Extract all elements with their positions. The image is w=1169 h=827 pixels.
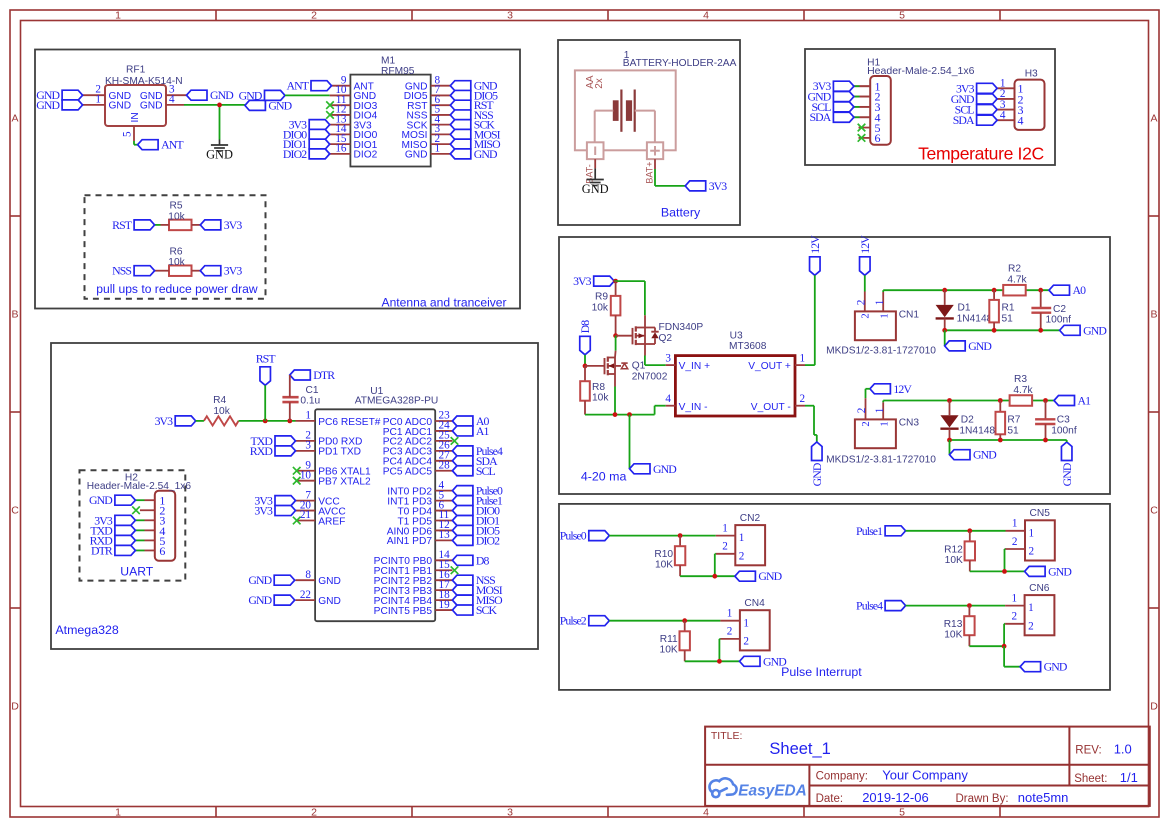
CN6 pin 2 <box>1005 623 1025 625</box>
svg-text:1: 1 <box>1012 518 1018 530</box>
wire CN5 pin2 to ground rail <box>1005 548 1006 550</box>
svg-text:Drawn By:: Drawn By: <box>956 793 1009 805</box>
resistor R4 zigzag <box>204 416 239 425</box>
svg-text:R1: R1 <box>1002 303 1015 314</box>
svg-text:2: 2 <box>311 9 317 21</box>
svg-text:EasyEDA: EasyEDA <box>738 783 806 800</box>
node junction D1 top <box>942 288 947 293</box>
svg-text:PCINT5 PB5: PCINT5 PB5 <box>374 606 433 617</box>
svg-text:6: 6 <box>875 131 881 145</box>
net flag DIO0 <box>452 506 473 516</box>
dashed box pull ups <box>85 195 266 298</box>
U1 pin 16 PCINT2 PB2 <box>435 579 452 581</box>
net flag NSS <box>134 266 155 276</box>
RF1 pin 3 stub <box>166 94 187 96</box>
net flag D8 <box>452 555 473 565</box>
svg-text:BAT+: BAT+ <box>645 162 655 184</box>
capacitor C3 <box>1045 401 1047 420</box>
U1 pin 2 PD0 RXD <box>296 440 316 442</box>
terminal block CN3 body <box>855 419 896 448</box>
header H3 body <box>1015 80 1045 130</box>
svg-text:note5mn: note5mn <box>1018 790 1069 805</box>
node junction C2 bottom <box>1038 328 1043 333</box>
H1 pin 6 <box>859 137 871 139</box>
CN1 pin 2 <box>864 292 866 312</box>
svg-text:2: 2 <box>311 806 317 818</box>
svg-text:GND: GND <box>140 101 163 112</box>
node junction D2 bottom <box>947 438 952 443</box>
wire D1 to GND flag <box>944 330 946 346</box>
wire DTR to C1 <box>289 375 291 397</box>
svg-text:MKDS1/2-3.81-1727010: MKDS1/2-3.81-1727010 <box>826 454 936 465</box>
net flag GND <box>274 575 295 585</box>
frame column ticks top <box>215 10 217 21</box>
svg-text:IN: IN <box>130 112 141 122</box>
svg-text:A: A <box>1150 113 1157 125</box>
node junction Q1 source rail <box>613 412 618 417</box>
wire D2 to GND flag <box>949 440 951 455</box>
node junction C1 <box>287 419 292 424</box>
svg-text:2: 2 <box>722 541 728 553</box>
terminal block CN4 body <box>740 610 770 650</box>
net flag GND <box>945 341 966 351</box>
net flag MISO <box>452 595 473 605</box>
net flag 3V3 <box>594 276 615 286</box>
svg-text:19: 19 <box>439 599 451 611</box>
wire VOUT- down to GND flag <box>805 405 814 407</box>
svg-text:1N4148: 1N4148 <box>959 426 995 437</box>
svg-text:MT3608: MT3608 <box>729 341 767 352</box>
bottom rail wire <box>585 414 655 416</box>
svg-text:12V: 12V <box>893 382 912 396</box>
svg-text:C: C <box>11 505 19 517</box>
svg-text:1N4148: 1N4148 <box>957 314 993 325</box>
ground rail wire <box>680 575 735 577</box>
svg-text:5: 5 <box>899 9 905 21</box>
U3 pin 3 V_IN+ <box>666 364 676 366</box>
svg-text:GND: GND <box>239 88 263 102</box>
net flag GND <box>833 92 854 102</box>
resistor R9 <box>615 281 617 296</box>
svg-text:CN4: CN4 <box>744 598 765 609</box>
svg-text:3: 3 <box>507 806 513 818</box>
no-connect X on U1 pin 25 <box>451 437 459 445</box>
H1 pin 4 <box>854 116 870 118</box>
transistor Q1 2N7002 <box>585 365 605 367</box>
svg-text:1: 1 <box>743 617 749 629</box>
antenna connector RF1 body <box>105 85 166 126</box>
U1 pin 5 INT1 PD3 <box>435 500 452 502</box>
net flag 3V3 <box>977 83 998 93</box>
node junction C3 top <box>1043 398 1048 403</box>
resistor R2 <box>1003 285 1025 296</box>
net flag RST <box>260 367 271 386</box>
svg-text:GND: GND <box>36 98 60 112</box>
svg-text:V_OUT +: V_OUT + <box>748 361 791 372</box>
net flag NSS <box>452 575 473 585</box>
svg-text:Date:: Date: <box>816 793 844 805</box>
svg-text:5: 5 <box>122 131 134 137</box>
top rail CN1 section <box>883 289 1055 291</box>
resistor R13 <box>968 606 970 617</box>
node junction Pulse4 R top <box>967 603 972 608</box>
net flag 3V3 <box>200 220 221 230</box>
net flag 12V <box>860 257 871 276</box>
terminal block CN1 body <box>855 311 896 340</box>
svg-text:GND: GND <box>1048 564 1072 578</box>
svg-text:GND: GND <box>318 596 341 607</box>
svg-text:1: 1 <box>722 522 728 534</box>
svg-text:2: 2 <box>743 636 749 648</box>
svg-text:3V3: 3V3 <box>155 414 174 428</box>
svg-text:1: 1 <box>435 143 441 155</box>
svg-text:Q1: Q1 <box>632 361 646 372</box>
svg-text:R8: R8 <box>592 382 605 393</box>
svg-text:RFM95: RFM95 <box>381 66 415 77</box>
net flag Pulse4 <box>885 601 906 611</box>
svg-text:Pulse0: Pulse0 <box>560 529 587 543</box>
H3 pin 2 <box>997 98 1014 100</box>
net flag GND <box>1025 566 1046 576</box>
svg-text:A1: A1 <box>476 424 490 438</box>
svg-text:10K: 10K <box>945 555 963 566</box>
net flag GND <box>450 81 471 91</box>
svg-text:2: 2 <box>861 421 872 426</box>
net flag RST <box>450 100 471 110</box>
net flag GND <box>62 90 83 100</box>
net flag ANT <box>138 140 159 150</box>
net flag SDA <box>977 115 998 125</box>
R5 right stub wire <box>192 224 201 226</box>
U1 pin 4 INT0 PD2 <box>435 490 452 492</box>
U1 pin 8 GND <box>296 579 316 581</box>
svg-text:10k: 10k <box>592 393 609 404</box>
svg-text:100nf: 100nf <box>1046 314 1072 325</box>
M1 pin 12 DIO4 <box>330 114 351 116</box>
svg-text:MKDS1/2-3.81-1727010: MKDS1/2-3.81-1727010 <box>826 345 936 356</box>
frame column ticks bottom <box>215 807 217 818</box>
svg-text:Atmega328: Atmega328 <box>55 623 118 637</box>
node junction GND drop <box>627 412 632 417</box>
svg-text:1: 1 <box>739 532 745 544</box>
net flag GND <box>450 149 471 159</box>
svg-text:DTR: DTR <box>313 368 335 382</box>
net flag 3V3 <box>275 496 296 506</box>
net flag GND <box>630 464 651 474</box>
svg-text:Battery: Battery <box>661 205 701 219</box>
svg-text:Your Company: Your Company <box>882 768 968 783</box>
svg-text:SDA: SDA <box>953 113 975 127</box>
net flag SCK <box>450 120 471 130</box>
node junction RST <box>263 419 268 424</box>
svg-text:4: 4 <box>703 806 709 818</box>
no-connect X on M1 pin 12 <box>326 111 334 119</box>
svg-text:2N7002: 2N7002 <box>632 371 668 382</box>
svg-text:PB7 XTAL2: PB7 XTAL2 <box>318 477 371 488</box>
H3 pin 3 <box>997 109 1014 111</box>
wire Pulse1 to CN5 <box>906 530 1006 532</box>
net flag DIO5 <box>450 90 471 100</box>
no-connect X on U1 pin 9 <box>293 467 301 475</box>
wire rail to U3 VIN- <box>654 406 656 415</box>
U1 pin 7 VCC <box>296 500 316 502</box>
svg-text:Q2: Q2 <box>659 333 673 344</box>
M1 pin 14 DIO0 <box>330 133 351 135</box>
M1 pin 3 MOSI <box>431 133 451 135</box>
net flag 12V <box>870 384 891 394</box>
svg-text:BAT-: BAT- <box>584 164 594 183</box>
U1 pin 15 PCINT1 PB1 <box>435 569 452 571</box>
net flag GND <box>187 90 208 100</box>
terminal block CN6 body <box>1025 595 1055 635</box>
CN5 pin 2 <box>1006 548 1026 550</box>
svg-text:12V: 12V <box>858 235 872 254</box>
CN4 pin 2 <box>720 638 740 640</box>
RF module M1 body <box>350 75 430 167</box>
battery terminal minus <box>587 142 604 159</box>
net flag DTR <box>290 370 311 380</box>
U1 pin 21 AREF <box>296 520 316 522</box>
title block dividers <box>705 764 1150 766</box>
U1 pin 20 AVCC <box>296 510 316 512</box>
wire Pulse2 to CN4 <box>609 620 720 622</box>
M1 pin 2 MISO <box>431 143 451 145</box>
svg-text:3V3: 3V3 <box>709 179 728 193</box>
H1 pin 1 <box>854 85 870 87</box>
wire R9 junction to Q1 drain <box>615 336 617 351</box>
U1 pin 25 PC2 ADC2 <box>435 440 452 442</box>
svg-text:GND: GND <box>89 493 113 507</box>
svg-text:C1: C1 <box>306 385 319 396</box>
wire BAT- to ground <box>594 159 596 168</box>
svg-text:1.0: 1.0 <box>1114 741 1132 756</box>
net flag A0 <box>452 416 473 426</box>
M1 pin 4 SCK <box>431 124 451 126</box>
svg-text:Pulse Interrupt: Pulse Interrupt <box>781 665 862 679</box>
wire 12V to CN1 pin2 <box>864 275 866 291</box>
block box Battery <box>558 40 740 225</box>
svg-text:GND: GND <box>810 462 824 486</box>
svg-text:4-20 ma: 4-20 ma <box>581 470 627 484</box>
svg-text:GND: GND <box>1060 462 1074 486</box>
net flag DIO2 <box>452 535 473 545</box>
node junction rail R10 <box>712 574 717 579</box>
net flag GND <box>265 90 286 100</box>
resistor R11 <box>684 621 686 632</box>
wire junction down to ground <box>219 105 221 140</box>
svg-text:AIN1 PD7: AIN1 PD7 <box>387 536 433 547</box>
no-connect X on H1 pin 5 <box>858 124 866 132</box>
svg-text:RF1: RF1 <box>126 65 146 76</box>
ground symbol battery <box>594 174 596 180</box>
svg-text:D8: D8 <box>578 320 592 334</box>
M1 pin 7 DIO5 <box>431 94 451 96</box>
node junction D8 Q1 gate <box>583 364 588 369</box>
svg-text:Pulse1: Pulse1 <box>856 524 883 538</box>
svg-text:R5: R5 <box>169 201 182 212</box>
net flag GND <box>977 94 998 104</box>
svg-text:10k: 10k <box>168 211 185 222</box>
U1 pin 19 PCINT5 PB5 <box>435 609 452 611</box>
net flag GND <box>1061 442 1072 461</box>
wire 3V3 rail to Q2 <box>614 280 645 282</box>
svg-text:R6: R6 <box>169 246 182 257</box>
svg-text:28: 28 <box>439 459 451 471</box>
svg-text:100nf: 100nf <box>1051 426 1077 437</box>
M1 pin 16 DIO2 <box>330 153 351 155</box>
resistor R5 <box>169 220 192 231</box>
svg-text:13: 13 <box>439 529 451 541</box>
svg-text:0.1u: 0.1u <box>300 395 320 406</box>
svg-text:1: 1 <box>727 608 733 620</box>
net flag GND <box>274 595 295 605</box>
svg-text:R9: R9 <box>595 292 608 303</box>
U1 pin 6 T0 PD4 <box>435 510 452 512</box>
net flag 3V3 <box>115 515 135 525</box>
svg-text:PC6 RESET#: PC6 RESET# <box>318 417 381 428</box>
H3 pin 4 <box>997 119 1014 121</box>
bottom rail CN1 section <box>945 329 1060 331</box>
svg-text:4.7k: 4.7k <box>1007 274 1027 285</box>
svg-text:RST: RST <box>112 218 133 232</box>
svg-text:2: 2 <box>1028 620 1034 632</box>
transistor Q2 FDN340P <box>616 335 633 337</box>
resistor R8 <box>584 366 586 381</box>
battery cell plates <box>620 90 622 132</box>
net flag GND <box>245 100 266 110</box>
RF1 pin 4 stub <box>166 104 184 106</box>
capacitor C2 <box>1040 290 1042 308</box>
svg-text:1: 1 <box>115 9 121 21</box>
svg-text:5: 5 <box>899 806 905 818</box>
terminal block CN2 body <box>735 525 765 565</box>
ground rail wire <box>685 660 740 662</box>
net flag SCL <box>833 102 854 112</box>
net flag DIO1 <box>309 139 330 149</box>
U1 pin 24 PC1 ADC1 <box>435 430 452 432</box>
no-connect X on H2 pin 2 <box>132 506 140 514</box>
svg-text:V_OUT -: V_OUT - <box>751 402 791 413</box>
wire Pulse0 to CN2 <box>609 535 716 537</box>
svg-text:D1: D1 <box>958 303 971 314</box>
net flag MISO <box>450 139 471 149</box>
wire RF1 pin5 to ANT flag <box>133 141 135 145</box>
net flag RST <box>134 220 155 230</box>
svg-text:U3: U3 <box>730 331 743 342</box>
block box 4-20 ma <box>559 237 1110 494</box>
U1 pin 10 PB7 XTAL2 <box>296 480 316 482</box>
svg-text:2: 2 <box>739 550 745 562</box>
bottom rail CN3 section <box>950 439 1067 441</box>
U1 pin 17 PCINT3 PB3 <box>435 589 452 591</box>
wire Q2 drain to U3 VIN+ <box>644 356 646 366</box>
wire GND drop <box>629 415 631 469</box>
H1 pin 2 <box>854 96 870 98</box>
svg-text:22: 22 <box>300 589 311 601</box>
svg-text:ANT: ANT <box>161 138 184 152</box>
node junction R7 bottom <box>998 438 1003 443</box>
svg-text:1: 1 <box>1012 592 1018 604</box>
top rail CN3 section <box>883 400 1060 402</box>
net flag 3V3 <box>275 506 296 516</box>
R5 left stub wire <box>155 224 161 226</box>
wire CN1 pin1 to rail <box>882 290 884 292</box>
svg-text:Pulse4: Pulse4 <box>856 599 883 613</box>
svg-text:2: 2 <box>800 393 806 405</box>
svg-text:4: 4 <box>1000 109 1006 121</box>
header H1 body <box>870 76 891 145</box>
svg-text:GND: GND <box>248 593 272 607</box>
svg-text:R11: R11 <box>660 634 678 645</box>
svg-text:DIO2: DIO2 <box>283 147 307 161</box>
svg-text:GND: GND <box>248 573 272 587</box>
net flag ANT <box>311 81 332 91</box>
block box Temperature I2C <box>805 49 1055 165</box>
RF1 pin 2 stub <box>83 94 105 96</box>
svg-text:SDA: SDA <box>809 110 831 124</box>
node junction rail R13 <box>1002 644 1007 649</box>
battery internal wires <box>595 110 614 112</box>
net flag DIO1 <box>452 516 473 526</box>
net flag DIO2 <box>309 149 330 159</box>
svg-text:Temperature I2C: Temperature I2C <box>918 144 1044 164</box>
svg-text:GND: GND <box>474 147 498 161</box>
svg-text:SCL: SCL <box>476 464 496 478</box>
svg-text:1: 1 <box>1029 527 1035 539</box>
node junction R9 Q2 gate <box>613 333 618 338</box>
CN1 pin 1 <box>882 292 884 311</box>
svg-text:C2: C2 <box>1053 304 1066 315</box>
CN3 pin 1 <box>882 402 884 419</box>
net flag A0 <box>1049 285 1070 295</box>
svg-text:GND: GND <box>405 150 428 161</box>
U1 pin 27 PC4 ADC4 <box>435 460 452 462</box>
svg-text:Company:: Company: <box>816 771 868 783</box>
M1 pin 10 GND <box>330 94 351 96</box>
node junction Pulse1 R top <box>967 528 972 533</box>
ground rail wire <box>970 570 1025 572</box>
svg-text:10k: 10k <box>592 302 609 313</box>
svg-text:GND: GND <box>582 182 609 196</box>
svg-text:GND: GND <box>206 148 233 162</box>
net flag GND <box>735 571 756 581</box>
svg-text:PC5 ADC5: PC5 ADC5 <box>383 467 433 478</box>
svg-text:2: 2 <box>1029 546 1035 558</box>
svg-text:2: 2 <box>1012 536 1018 548</box>
dashed box UART <box>80 470 186 580</box>
svg-text:A1: A1 <box>1078 394 1092 408</box>
svg-text:1: 1 <box>874 300 886 306</box>
RF1 pin 1 stub <box>83 104 105 106</box>
net flag GND <box>62 100 83 110</box>
svg-text:DTR: DTR <box>91 543 113 557</box>
svg-text:ATMEGA328P-PU: ATMEGA328P-PU <box>355 396 439 407</box>
svg-text:M1: M1 <box>381 56 395 67</box>
net flag 3V3 <box>685 181 706 191</box>
net flag Pulse4 <box>452 446 473 456</box>
node junction D2 top <box>947 398 952 403</box>
boost converter U3 body <box>675 356 795 416</box>
svg-text:C: C <box>1150 505 1158 517</box>
wire RF1 pin4 to junction <box>184 104 245 106</box>
EasyEDA logo cloud <box>709 778 736 797</box>
capacitor C1 <box>282 396 298 399</box>
frame row ticks right <box>1149 215 1160 217</box>
svg-text:2: 2 <box>855 300 867 306</box>
svg-text:DIO2: DIO2 <box>476 533 500 547</box>
node junction rail R12 <box>1002 569 1007 574</box>
U3 pin 4 V_IN- <box>666 405 676 407</box>
